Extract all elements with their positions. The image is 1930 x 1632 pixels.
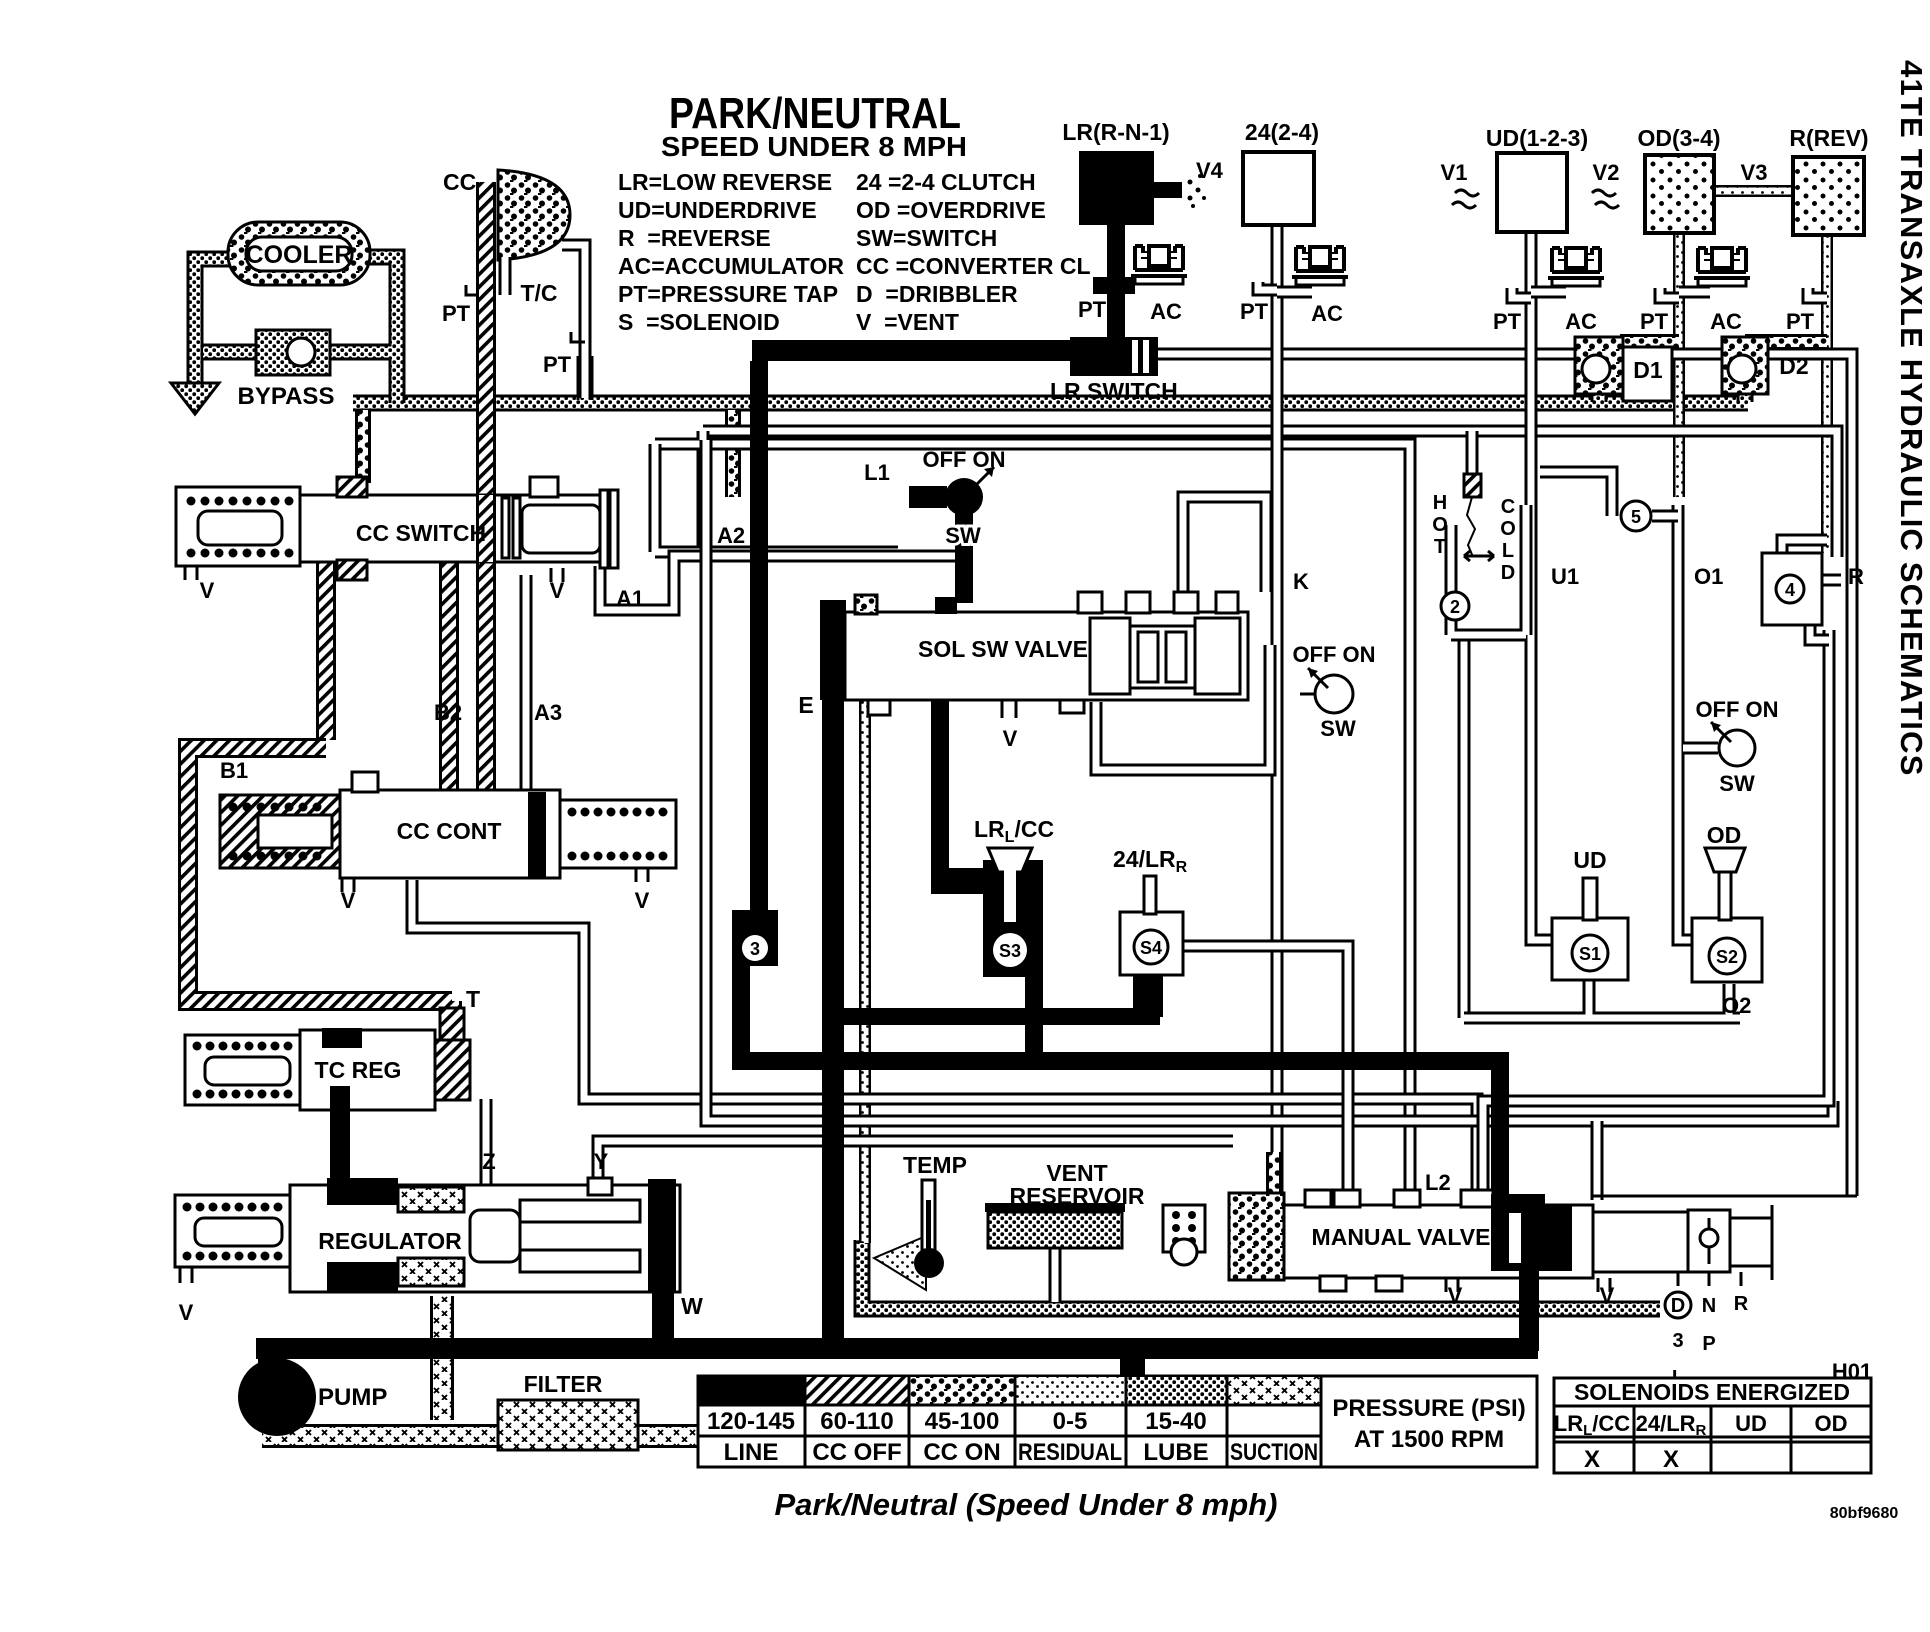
- wire upper distribution channel 2: [655, 431, 1410, 1205]
- wire upper collector: [825, 1008, 1160, 1025]
- svg-text:BYPASS: BYPASS: [238, 383, 335, 410]
- svg-text:T: T: [1434, 536, 1446, 558]
- wire T/C right leg: [577, 356, 594, 400]
- svg-text:0-5: 0-5: [1053, 1408, 1088, 1435]
- svg-text:PT: PT: [543, 352, 572, 377]
- table pressure legend: [698, 1376, 1321, 1467]
- svg-text:TEMP: TEMP: [903, 1152, 967, 1178]
- svg-text:V4: V4: [1196, 158, 1224, 183]
- svg-text:60-110: 60-110: [820, 1408, 893, 1435]
- accumulator AC OD: [1694, 248, 1750, 286]
- valve MANUAL VALVE body: [1284, 1205, 1593, 1278]
- node 3: [732, 910, 778, 966]
- svg-text:L1: L1: [864, 460, 890, 485]
- PT tick TC left: [466, 285, 478, 295]
- torque converter T/C: [498, 170, 570, 260]
- clutch OD box: [1645, 155, 1714, 233]
- valve CC SWITCH body: [300, 495, 614, 562]
- svg-text:PT: PT: [1640, 309, 1669, 334]
- thick line A horizontal: [752, 340, 1074, 361]
- svg-text:UD=UNDERDRIVE: UD=UNDERDRIVE: [618, 197, 817, 223]
- wire lube drop left: [355, 410, 371, 483]
- svg-text:S4: S4: [1140, 938, 1162, 958]
- valve REGULATOR spring box: [175, 1195, 290, 1267]
- svg-text:V: V: [635, 888, 650, 913]
- wire manual valve down: [1519, 1271, 1539, 1351]
- svg-text:SW: SW: [945, 523, 981, 548]
- svg-text:C: C: [1501, 496, 1515, 518]
- svg-text:SOL SW VALVE: SOL SW VALVE: [918, 636, 1088, 662]
- svg-text:H: H: [1433, 492, 1447, 514]
- svg-text:R: R: [1734, 1293, 1749, 1315]
- svg-text:V: V: [179, 1300, 194, 1325]
- svg-text:T/C: T/C: [520, 280, 557, 306]
- valve 2 thermal: [1451, 505, 1526, 635]
- svg-text:LR SWITCH: LR SWITCH: [1050, 378, 1178, 404]
- svg-text:PT: PT: [442, 301, 471, 326]
- vent mark V1: [1452, 190, 1479, 208]
- svg-text:OFF ON: OFF ON: [1292, 642, 1375, 667]
- svg-text:RESIDUAL: RESIDUAL: [1018, 1439, 1122, 1466]
- svg-text:120-145: 120-145: [707, 1408, 795, 1435]
- svg-text:SPEED UNDER 8 MPH: SPEED UNDER 8 MPH: [661, 131, 967, 162]
- svg-text:AC: AC: [1150, 299, 1182, 324]
- svg-text:A3: A3: [534, 700, 562, 725]
- wire D1 stem: [1591, 390, 1608, 402]
- svg-text:D1: D1: [1633, 357, 1663, 383]
- svg-text:L: L: [1502, 540, 1514, 562]
- table pressure psi box: [1321, 1376, 1537, 1467]
- svg-text:OD(3-4): OD(3-4): [1637, 125, 1720, 151]
- svg-text:24 =2-4 CLUTCH: 24 =2-4 CLUTCH: [856, 169, 1036, 195]
- svg-text:D =DRIBBLER: D =DRIBBLER: [856, 281, 1018, 307]
- wire valve5 link: [1540, 472, 1678, 516]
- vent stub CC SWITCH right: [551, 568, 563, 582]
- wire K line: [1271, 225, 1284, 1205]
- svg-text:R =REVERSE: R =REVERSE: [618, 225, 771, 251]
- wire W2 channel: [706, 440, 1833, 1121]
- vent reservoir: [985, 1203, 1125, 1212]
- solenoid S3 assembly: [931, 700, 949, 890]
- wire Y channel: [598, 1141, 1233, 1192]
- svg-text:Z: Z: [482, 1149, 495, 1174]
- svg-text:Park/Neutral (Speed Under 8 mp: Park/Neutral (Speed Under 8 mph): [774, 1487, 1277, 1522]
- wire OD AC stub: [1679, 286, 1710, 299]
- svg-text:R: R: [1848, 564, 1864, 589]
- wire vent reservoir drain: [1049, 1248, 1062, 1302]
- wire LR switch output channel: [1158, 354, 1852, 1196]
- svg-text:OFF ON: OFF ON: [1695, 697, 1778, 722]
- svg-text:V: V: [341, 888, 356, 913]
- vent mark V2: [1592, 190, 1619, 208]
- wire main line F: [256, 1338, 1538, 1359]
- svg-text:80bf9680: 80bf9680: [1830, 1505, 1899, 1522]
- valve SOL SW VALVE body: [845, 612, 1248, 700]
- wire O1 line: [1678, 505, 1696, 940]
- svg-text:V2: V2: [1593, 160, 1620, 185]
- svg-text:15-40: 15-40: [1145, 1408, 1206, 1435]
- bypass valve: [256, 330, 330, 375]
- valve REGULATOR body: [290, 1185, 680, 1292]
- wire suction regulator drop: [430, 1296, 454, 1420]
- wire thermal valve drop: [1458, 640, 1471, 1018]
- wire cooler feed stipple: [725, 410, 741, 497]
- wire S1 S2 collector channel: [1464, 980, 1740, 1018]
- valve CC CONT right spring: [560, 800, 676, 868]
- svg-text:CC ON: CC ON: [923, 1439, 1000, 1466]
- wire B1 hatch loop: [188, 748, 452, 1035]
- wire A2 channel: [655, 444, 898, 552]
- svg-text:V: V: [550, 578, 565, 603]
- svg-text:X: X: [1584, 1446, 1600, 1473]
- svg-text:PT=PRESSURE TAP: PT=PRESSURE TAP: [618, 281, 838, 307]
- valve TC REG body: [300, 1030, 435, 1110]
- clutch R box: [1793, 157, 1864, 235]
- wire W stub: [652, 1292, 674, 1346]
- svg-text:U1: U1: [1551, 564, 1579, 589]
- wire W2 manual valve drop: [1591, 1121, 1604, 1200]
- wire B vertical to node3: [750, 361, 768, 910]
- manual valve right extension: [1593, 1212, 1688, 1272]
- temp thermometer: [874, 1236, 926, 1290]
- wire node3 to manual valve: [741, 966, 1500, 1205]
- table solenoids energized: [1554, 1378, 1871, 1473]
- svg-text:W: W: [681, 1293, 703, 1319]
- valve CC CONT spring box: [220, 795, 340, 868]
- svg-text:P: P: [1702, 1333, 1715, 1355]
- svg-text:AT 1500 RPM: AT 1500 RPM: [1354, 1426, 1504, 1453]
- svg-text:UD(1-2-3): UD(1-2-3): [1486, 125, 1588, 151]
- svg-text:REGULATOR: REGULATOR: [318, 1228, 462, 1254]
- svg-text:AC: AC: [1565, 309, 1597, 334]
- svg-text:OD =OVERDRIVE: OD =OVERDRIVE: [856, 197, 1046, 223]
- wire OD PT stub: [1660, 288, 1679, 298]
- svg-text:OFF ON: OFF ON: [922, 447, 1005, 472]
- wire U AC stub: [1531, 286, 1566, 299]
- valve 4: [1762, 553, 1822, 625]
- selector letters D N R 3 P L: [1665, 1292, 1691, 1318]
- wire lube cooler left loop: [195, 257, 397, 403]
- svg-text:D: D: [1501, 562, 1515, 584]
- svg-text:3: 3: [750, 939, 760, 959]
- vent stub REGULATOR: [180, 1267, 192, 1283]
- wire upper distribution channel 1: [703, 431, 1837, 557]
- svg-text:CC CONT: CC CONT: [397, 818, 502, 844]
- svg-text:4: 4: [1785, 580, 1795, 600]
- vent stub manual valve left: [1446, 1278, 1458, 1292]
- svg-text:PUMP: PUMP: [318, 1384, 387, 1411]
- switch SW mid: [1315, 675, 1353, 713]
- svg-text:CC SWITCH: CC SWITCH: [356, 520, 486, 546]
- svg-text:SOLENOIDS ENERGIZED: SOLENOIDS ENERGIZED: [1574, 1379, 1850, 1405]
- solenoid inlet E black: [820, 600, 846, 700]
- svg-text:V: V: [1600, 1283, 1615, 1308]
- svg-text:LINE: LINE: [724, 1439, 779, 1466]
- svg-text:S1: S1: [1579, 944, 1601, 964]
- svg-text:O: O: [1500, 518, 1516, 540]
- svg-text:A2: A2: [717, 523, 745, 548]
- svg-text:LUBE: LUBE: [1143, 1439, 1208, 1466]
- relief valve: [1163, 1205, 1205, 1252]
- switch SW right: [1719, 730, 1755, 766]
- svg-text:N: N: [1702, 1295, 1716, 1317]
- svg-text:LR=LOW REVERSE: LR=LOW REVERSE: [618, 169, 832, 195]
- svg-text:E: E: [798, 692, 813, 718]
- svg-text:AC=ACCUMULATOR: AC=ACCUMULATOR: [618, 253, 844, 279]
- svg-text:S2: S2: [1716, 947, 1738, 967]
- vent stub manual valve right: [1598, 1278, 1610, 1292]
- svg-text:MANUAL VALVE: MANUAL VALVE: [1312, 1224, 1491, 1250]
- svg-text:V1: V1: [1441, 160, 1468, 185]
- svg-text:L2: L2: [1425, 1170, 1451, 1195]
- svg-text:SUCTION: SUCTION: [1230, 1439, 1318, 1466]
- svg-text:FILTER: FILTER: [524, 1371, 603, 1397]
- TC REG top black cap duplicate: [322, 1028, 362, 1048]
- svg-text:RESERVOIR: RESERVOIR: [1009, 1183, 1144, 1209]
- svg-text:2: 2: [1450, 597, 1460, 617]
- wire SW right stub: [1683, 742, 1718, 755]
- wire suction pump to filter: [262, 1424, 830, 1448]
- solenoid S4 leg: [1133, 970, 1163, 1017]
- svg-text:CC =CONVERTER CL: CC =CONVERTER CL: [856, 253, 1091, 279]
- wire U PT stub: [1512, 288, 1531, 298]
- wire K PT elbow: [1258, 282, 1277, 290]
- wire K AC stub: [1277, 286, 1312, 299]
- cooler: [228, 222, 370, 285]
- svg-text:UD: UD: [1735, 1411, 1767, 1436]
- vent stub CC CONT right: [636, 868, 648, 882]
- wire SOL valve loop: [1096, 645, 1270, 770]
- svg-text:V: V: [1003, 726, 1018, 751]
- wire U line: [1531, 232, 1556, 940]
- svg-text:OD: OD: [1707, 822, 1742, 848]
- accumulator AC LR: [1131, 246, 1187, 284]
- stipple block manual valve: [1229, 1193, 1284, 1280]
- svg-text:D: D: [1671, 1295, 1685, 1317]
- svg-text:LRL/CC: LRL/CC: [974, 816, 1054, 846]
- PT bar LR: [1093, 277, 1135, 294]
- svg-text:PRESSURE (PSI): PRESSURE (PSI): [1332, 1395, 1525, 1422]
- wire thermal valve top feed: [1466, 431, 1479, 474]
- switch LR SWITCH: [1070, 337, 1127, 376]
- svg-text:V =VENT: V =VENT: [856, 309, 959, 335]
- wire S4 output channel: [1183, 946, 1348, 1205]
- svg-text:B2: B2: [434, 700, 462, 725]
- svg-text:V: V: [200, 578, 215, 603]
- wire V3 vent channel: [1714, 185, 1793, 197]
- svg-text:SW=SWITCH: SW=SWITCH: [856, 225, 997, 251]
- pump: [258, 1345, 286, 1381]
- vent stub CC CONT left: [342, 878, 354, 892]
- svg-text:D2: D2: [1779, 353, 1808, 379]
- wire CC converter hatch vertical: [476, 182, 496, 795]
- filter: [498, 1400, 638, 1450]
- svg-text:CC: CC: [443, 169, 476, 195]
- SECTION: components: [175, 151, 1864, 1450]
- svg-text:Y: Y: [594, 1149, 609, 1174]
- svg-text:V: V: [1448, 1283, 1463, 1308]
- solenoid S1: [1552, 918, 1628, 980]
- wire residual vertical to temp: [859, 612, 871, 1243]
- SECTION: channels: [171, 182, 1852, 1436]
- svg-text:PT: PT: [1240, 299, 1269, 324]
- svg-text:3: 3: [1672, 1330, 1683, 1352]
- clutch UD box: [1497, 153, 1567, 232]
- wire lube main horizontal: [353, 395, 1748, 412]
- valve 5: [1621, 501, 1651, 531]
- valve TC REG spring box: [185, 1035, 300, 1105]
- wire D2 feed stipple: [1745, 334, 1827, 350]
- svg-text:S =SOLENOID: S =SOLENOID: [618, 309, 780, 335]
- svg-text:PT: PT: [1493, 309, 1522, 334]
- svg-text:5: 5: [1631, 507, 1641, 527]
- svg-text:K: K: [1293, 569, 1309, 594]
- accumulator AC 24: [1292, 247, 1348, 285]
- svg-text:LR(R-N-1): LR(R-N-1): [1062, 119, 1169, 145]
- wire K stipple lower: [1266, 1152, 1282, 1200]
- wire D1 feed stipple: [1620, 334, 1679, 350]
- svg-text:S3: S3: [999, 941, 1021, 961]
- clutch 24 box: [1243, 152, 1314, 225]
- vent stub CC SWITCH left: [185, 566, 197, 580]
- svg-text:41TE TRANSAXLE HYDRAULIC SCHEM: 41TE TRANSAXLE HYDRAULIC SCHEMATICS: [1894, 60, 1929, 777]
- solenoid S2: [1692, 918, 1762, 982]
- vent stub SOL valve: [1002, 700, 1016, 718]
- svg-text:24(2-4): 24(2-4): [1245, 119, 1319, 145]
- svg-text:A1: A1: [616, 586, 644, 611]
- wire OD clutch line dotted: [1673, 233, 1685, 497]
- svg-text:COOLER: COOLER: [246, 241, 353, 269]
- svg-text:UD: UD: [1573, 847, 1606, 873]
- svg-text:PT: PT: [1078, 297, 1107, 322]
- svg-text:CC OFF: CC OFF: [812, 1439, 901, 1466]
- PT tick TC right: [571, 332, 585, 342]
- wire LR stem: [1107, 225, 1125, 340]
- wire A3 channel: [520, 575, 533, 790]
- svg-text:O2: O2: [1722, 993, 1751, 1018]
- wire B2 hatch leg: [326, 562, 449, 795]
- svg-text:V3: V3: [1741, 160, 1768, 185]
- svg-text:T: T: [466, 986, 480, 1012]
- clutch LR black box: [1079, 151, 1154, 225]
- wire bypass arrow: [171, 383, 219, 414]
- svg-text:AC: AC: [1710, 309, 1742, 334]
- svg-text:TC REG: TC REG: [315, 1057, 402, 1083]
- svg-text:X: X: [1663, 1446, 1679, 1473]
- valve CC SWITCH spring box: [176, 487, 300, 566]
- dribbler D1: [1575, 337, 1623, 394]
- svg-text:LRL/CC: LRL/CC: [1554, 1411, 1631, 1439]
- wire R clutch line dotted: [1821, 235, 1833, 553]
- solenoid S4 body: [1120, 912, 1183, 975]
- wire A1 channel: [600, 556, 965, 610]
- svg-text:OD: OD: [1815, 1411, 1848, 1436]
- svg-text:PT: PT: [1786, 309, 1815, 334]
- switch L1: [909, 486, 947, 508]
- svg-text:O: O: [1432, 514, 1448, 536]
- vent V4 nozzle: [1154, 182, 1182, 198]
- wire D2 stem: [1737, 388, 1754, 402]
- wire SOL valve upper loop: [1183, 497, 1266, 592]
- wire H1 channel manual valve to 4: [1483, 630, 1829, 1200]
- dribbler D2: [1722, 337, 1768, 394]
- wire R PT stub: [1808, 288, 1827, 298]
- svg-text:AC: AC: [1311, 301, 1343, 326]
- wire lube bottom channel: [862, 1240, 1660, 1309]
- svg-text:45-100: 45-100: [925, 1408, 1000, 1435]
- accumulator AC UD: [1548, 248, 1604, 286]
- wire valve4 links: [1782, 540, 1841, 640]
- valve CC CONT body: [340, 790, 560, 878]
- svg-text:B1: B1: [220, 758, 248, 783]
- wire W1 channel CC CONT to manual valve: [412, 880, 1477, 1200]
- wire F stub down: [1120, 1352, 1145, 1394]
- wire Z drop: [480, 1099, 493, 1192]
- wire E vertical: [822, 610, 844, 1350]
- svg-text:R(REV): R(REV): [1789, 125, 1868, 151]
- svg-text:O1: O1: [1694, 564, 1723, 589]
- svg-text:SW: SW: [1719, 771, 1755, 796]
- svg-text:SW: SW: [1320, 716, 1356, 741]
